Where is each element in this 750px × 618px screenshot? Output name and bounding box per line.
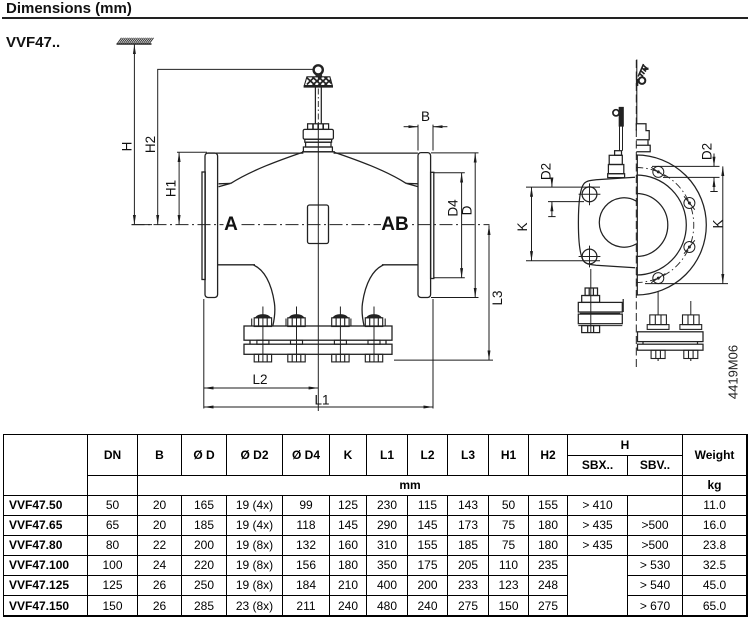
svg-text:H1: H1: [164, 180, 179, 197]
svg-text:L2: L2: [252, 372, 267, 387]
svg-text:H: H: [120, 142, 135, 152]
svg-text:B: B: [421, 109, 430, 124]
svg-text:L3: L3: [490, 290, 505, 305]
svg-text:D2: D2: [700, 143, 715, 160]
svg-text:K: K: [515, 222, 530, 231]
svg-text:4419M06: 4419M06: [725, 345, 740, 399]
svg-text:D2: D2: [539, 163, 554, 180]
svg-text:D4: D4: [446, 199, 461, 217]
svg-text:L1: L1: [314, 393, 329, 408]
svg-text:D: D: [460, 205, 475, 215]
svg-text:K: K: [711, 219, 726, 228]
svg-text:A: A: [224, 214, 238, 235]
svg-text:AB: AB: [381, 214, 408, 235]
svg-text:H2: H2: [143, 136, 158, 153]
